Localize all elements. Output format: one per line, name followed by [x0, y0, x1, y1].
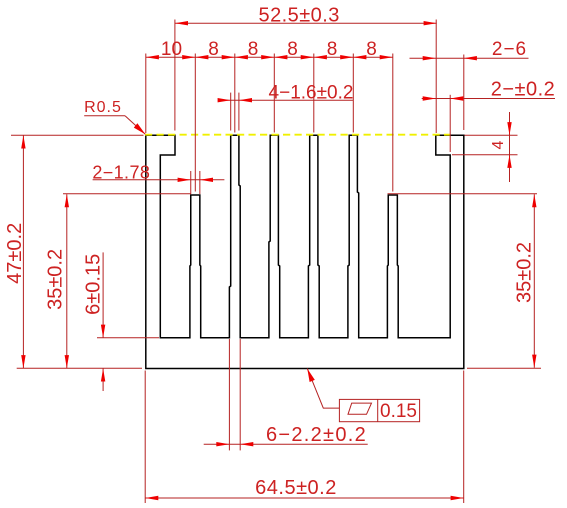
- flatness parallelogram: [348, 403, 372, 414]
- svg-text:8: 8: [327, 39, 338, 60]
- dim 2-pm0.2 line: [422, 98, 555, 100]
- svg-text:4: 4: [490, 140, 507, 149]
- arrows 4 vertical outside: [507, 122, 511, 135]
- svg-text:R0.5: R0.5: [84, 99, 122, 116]
- yellow dashed top line: [145, 134, 450, 136]
- dim 35 right: [533, 194, 535, 368]
- arrow R0.5: [134, 123, 146, 134]
- dim 52.5 line: [175, 22, 437, 24]
- dim 35 left: [66, 194, 68, 368]
- arrows chain: [146, 55, 159, 59]
- svg-text:8: 8: [287, 39, 298, 60]
- dim 4-1.6: [218, 99, 353, 101]
- arrows 2-pm: [423, 96, 436, 100]
- svg-text:0.15: 0.15: [380, 401, 417, 422]
- arrows 4-1.6: [218, 98, 231, 102]
- R0.5 leader: [84, 115, 125, 117]
- arrows 6 outside: [101, 325, 105, 338]
- dim 6 left: [102, 252, 104, 337]
- svg-text:4−1.6±0.2: 4−1.6±0.2: [269, 83, 354, 104]
- heatsink profile outline: [146, 135, 464, 368]
- dim 6-2.2: [204, 443, 368, 445]
- dim 2-6 line: [410, 57, 529, 59]
- svg-text:47±0.2: 47±0.2: [4, 223, 26, 284]
- svg-text:52.5±0.3: 52.5±0.3: [259, 4, 340, 26]
- flatness frame: [339, 399, 419, 421]
- arrows 52.5: [175, 21, 188, 25]
- dim 64.5: [145, 497, 464, 499]
- flatness leader: [307, 369, 339, 409]
- arrows 2-6 outside: [423, 56, 436, 60]
- svg-text:6−2.2±0.2: 6−2.2±0.2: [266, 424, 367, 446]
- svg-text:35±0.2: 35±0.2: [514, 242, 536, 303]
- arrows 47: [21, 135, 25, 148]
- arrow flatness leader: [307, 369, 315, 382]
- dim 47 left: [22, 135, 24, 368]
- arrows 6-2.2: [216, 442, 229, 446]
- dim 2-1.78: [93, 179, 225, 181]
- dim chain 10/8 line: [146, 56, 393, 58]
- arrows 35 right: [532, 194, 536, 207]
- arrows 2-1.78: [178, 178, 191, 182]
- arrows 64.5: [145, 496, 158, 500]
- svg-text:2−6: 2−6: [492, 39, 527, 60]
- svg-text:8: 8: [248, 39, 259, 60]
- svg-text:35±0.2: 35±0.2: [45, 249, 67, 310]
- svg-text:8: 8: [208, 39, 219, 60]
- arrows 35 left: [65, 194, 69, 207]
- svg-text:10: 10: [161, 39, 182, 60]
- svg-text:2−1.78: 2−1.78: [92, 163, 150, 183]
- svg-text:6±0.15: 6±0.15: [83, 254, 105, 315]
- dim 4 right line: [509, 112, 511, 182]
- svg-text:64.5±0.2: 64.5±0.2: [255, 477, 337, 499]
- svg-text:8: 8: [366, 39, 377, 60]
- svg-text:2−±0.2: 2−±0.2: [491, 78, 556, 100]
